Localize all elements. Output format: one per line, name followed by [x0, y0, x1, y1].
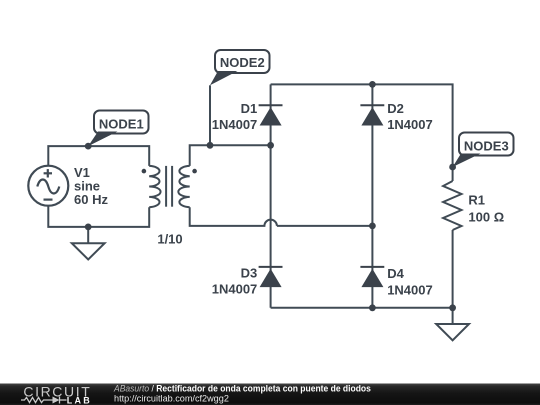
- node NODE1 callout: [88, 111, 148, 147]
- ground GND1 (primary side): [72, 227, 105, 260]
- junction dot ground on bottom-left rail: [85, 224, 92, 231]
- transformer T1 primary winding: [149, 166, 160, 207]
- wire V1 bottom to transformer primary bottom: [48, 206, 149, 227]
- diode D4: [360, 267, 384, 287]
- diode D3: [259, 267, 283, 287]
- svg-text:NODE3: NODE3: [464, 138, 509, 153]
- node NODE2 callout: [210, 50, 270, 85]
- junction dot D2-D4 on secondary rail: [369, 223, 376, 230]
- wire bridge right column D4: [371, 226, 373, 308]
- svg-text:100 Ω: 100 Ω: [468, 209, 504, 224]
- junction dot D2 on top rail: [369, 81, 376, 88]
- wire R1 bottom to bottom rail: [452, 230, 454, 308]
- svg-text:LAB: LAB: [67, 395, 92, 405]
- wire bridge bottom rail: [271, 307, 453, 309]
- diode D2: [360, 105, 384, 125]
- junction dot D4 on bottom rail: [369, 304, 376, 311]
- wire bridge left column D1-D3: [270, 84, 272, 307]
- node NODE3 callout: [453, 133, 514, 168]
- junction dot output column on bottom rail: [449, 304, 456, 311]
- junction dot D1-D3 column on NODE2 rail: [267, 142, 274, 149]
- junction dot NODE2 stub on rail: [207, 142, 214, 149]
- transformer T1 core: [166, 166, 172, 207]
- svg-text:1N4007: 1N4007: [387, 283, 433, 298]
- transformer T1 secondary winding: [178, 166, 189, 207]
- wire V1 top to transformer primary top: [48, 146, 149, 166]
- wire top rail and right column to R1: [271, 84, 453, 181]
- wire bridge right column D2: [371, 84, 373, 226]
- ground GND2 (output side): [436, 308, 469, 341]
- svg-text:D3: D3: [241, 266, 258, 281]
- svg-text:1N4007: 1N4007: [212, 282, 258, 297]
- junction dot NODE1 on top-left rail: [85, 143, 92, 150]
- svg-text:ABasurto / Rectificador de ond: ABasurto / Rectificador de onda completa…: [113, 383, 371, 394]
- svg-text:NODE1: NODE1: [99, 116, 144, 131]
- svg-text:D2: D2: [387, 101, 404, 116]
- transformer T1 secondary phase dot: [192, 169, 197, 174]
- diode D1: [259, 105, 283, 125]
- voltage source V1: [28, 166, 68, 206]
- svg-text:D4: D4: [387, 266, 404, 281]
- wire NODE2 rail: secondary top to bridge: [190, 145, 271, 166]
- label V1 value: [74, 165, 108, 207]
- svg-text:1N4007: 1N4007: [212, 117, 258, 132]
- svg-text:D1: D1: [241, 101, 258, 116]
- svg-text:1N4007: 1N4007: [387, 117, 433, 132]
- footer logo resistor-diode squiggle: [21, 397, 67, 404]
- wire secondary bottom rail with hop: [190, 207, 373, 226]
- svg-text:1/10: 1/10: [157, 232, 182, 247]
- svg-text:http://circuitlab.com/cf2wgg2: http://circuitlab.com/cf2wgg2: [114, 393, 229, 403]
- wire NODE2 stub: [209, 85, 211, 145]
- svg-text:R1: R1: [468, 193, 485, 208]
- resistor R1: [443, 181, 461, 230]
- svg-text:NODE2: NODE2: [220, 55, 265, 70]
- junction dot NODE3 on right column: [449, 164, 456, 171]
- svg-text:60 Hz: 60 Hz: [74, 192, 108, 207]
- transformer T1 primary phase dot: [142, 169, 147, 174]
